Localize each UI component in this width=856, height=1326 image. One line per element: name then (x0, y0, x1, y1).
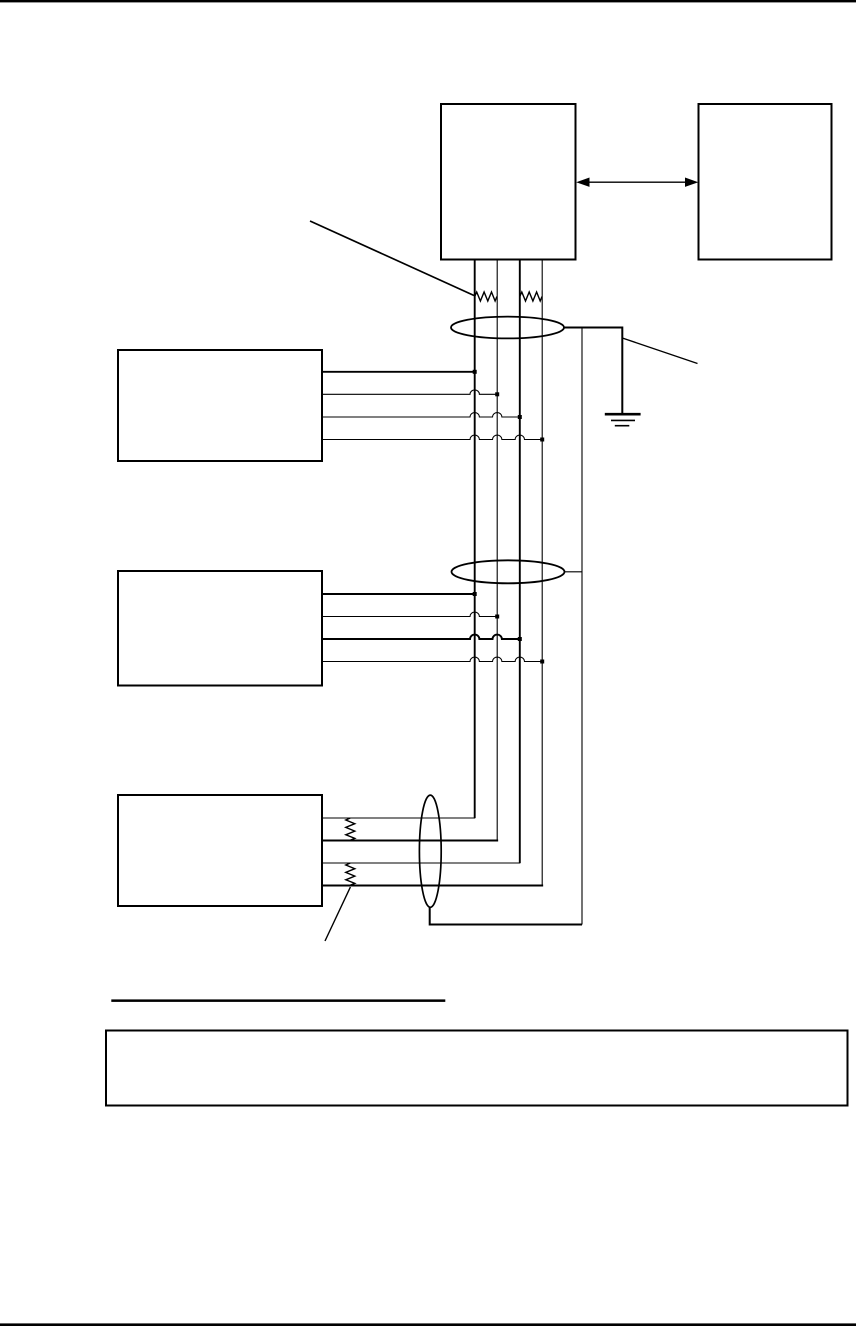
wire: node1 pin3 to L3 (hops over L1,L2) (322, 413, 520, 417)
junction: node1-L3 (518, 415, 522, 419)
wire: E3 shield return to shield bus S (430, 907, 582, 925)
wire: node3 pin1 to L1 (turns up) (322, 817, 475, 818)
block N1: node 1 (first left box) (118, 350, 322, 461)
shield ellipse E1 (cable screen, top) (451, 317, 564, 339)
wire: E2 shield to shield bus S (565, 571, 583, 573)
wire: node1 pin1 to L1 (322, 371, 475, 373)
resistor R3: termination across node3 pins 1-2 (346, 818, 355, 840)
wire: node2 pin3 to L3 (hops over L1,L2) (322, 635, 520, 639)
junction: node1-L1 (473, 370, 477, 374)
junction: node2-L1 (473, 592, 477, 596)
wire: node2 pin4 to L4 (hops over L1,L2,L3) (322, 657, 542, 661)
wire: node3 pin3 to L3 (turns up) (322, 862, 520, 863)
bidirectional arrow between U1 and U2 (576, 178, 698, 187)
note box (106, 1031, 848, 1106)
junction: node2-L2 (495, 615, 499, 619)
block N2: node 2 (second left box) (118, 571, 322, 686)
wire: node2 pin2 to L2 (hop over L1) (322, 612, 497, 616)
wire: node1 pin4 to L4 (hops over L1,L2,L3) (322, 435, 542, 439)
wire: node2 pin1 to L1 (322, 593, 475, 595)
ground (605, 414, 641, 426)
junction: node2-L4 (540, 660, 544, 664)
wire L3: bus line 3 (vertical) (519, 260, 521, 864)
wire: node3 pin4 to L4 (turns up) (322, 885, 542, 886)
wire S: shield bus (vertical run) (581, 328, 583, 925)
shield ellipse E2 (cable screen, middle) (452, 560, 565, 583)
junction: node1-L2 (495, 392, 499, 396)
block U2: remote device (top-right box) (699, 104, 832, 260)
junction: node1-L4 (540, 438, 544, 442)
page top rule (0, 0, 856, 2)
page bottom rule (0, 1323, 856, 1326)
wire L4: bus line 4 (vertical) (541, 260, 543, 886)
caption underline rule (111, 999, 445, 1002)
wire: E1 shield to ground elbow (564, 328, 622, 415)
shield ellipse E3 (cable screen, bottom, vertical) (419, 795, 441, 907)
leader line to resistor R4 (325, 887, 350, 941)
block N3: node 3 (bottom left box) (118, 795, 322, 906)
leader line to shield/ground (622, 338, 697, 364)
resistor R1: termination across L1-L2 (475, 292, 497, 301)
wire: node1 pin2 to L2 (hop over L1) (322, 390, 497, 394)
wire L1: bus line 1 (vertical) (474, 260, 476, 819)
wire: node3 pin2 to L2 (turns up) (322, 840, 497, 841)
resistor R2: termination across L3-L4 (520, 292, 542, 301)
wire L2: bus line 2 (vertical) (496, 260, 498, 841)
leader line to termination resistors R1/R2 (310, 221, 474, 296)
block U1: bus controller (top-center box) (441, 104, 576, 260)
resistor R4: termination across node3 pins 3-4 (346, 863, 355, 885)
junction: node2-L3 (518, 637, 522, 641)
